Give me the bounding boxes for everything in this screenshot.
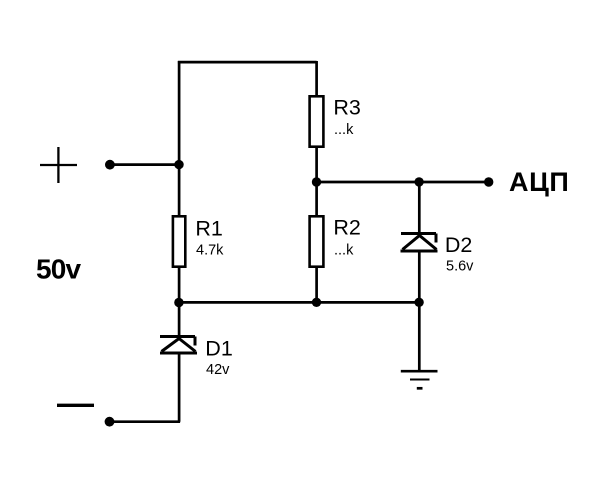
svg-text:42v: 42v <box>206 362 230 378</box>
svg-text:50v: 50v <box>36 253 81 284</box>
svg-text:R1: R1 <box>195 216 222 240</box>
svg-text:АЦП: АЦП <box>509 167 569 197</box>
svg-text:5.6v: 5.6v <box>446 259 474 275</box>
svg-text:D2: D2 <box>445 233 472 257</box>
svg-text:...k: ...k <box>334 243 354 259</box>
svg-text:4.7k: 4.7k <box>196 243 224 259</box>
svg-text:R2: R2 <box>333 216 360 240</box>
svg-text:R3: R3 <box>333 95 361 119</box>
svg-text:D1: D1 <box>205 336 232 360</box>
svg-text:...k: ...k <box>334 122 354 138</box>
